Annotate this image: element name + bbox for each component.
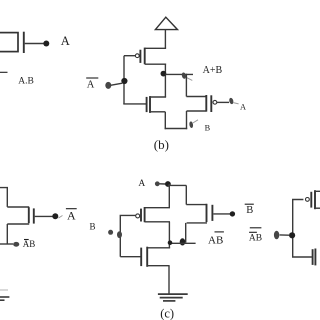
nmos M7 drain lead xyxy=(186,204,207,206)
nmos M8 channel bar xyxy=(146,247,148,267)
svg-text:A.B: A.B xyxy=(18,76,34,86)
leader tail A+B xyxy=(186,77,193,80)
wire nmos M3 gate lead xyxy=(123,103,146,105)
nmos M8 source lead xyxy=(147,265,169,267)
pmos M9 drain lead (cut) xyxy=(315,207,320,209)
terminal blob B xyxy=(189,121,194,128)
wire A stub xyxy=(160,183,166,185)
wire M5 gate to node Abar xyxy=(35,215,53,217)
pmos M9 gate bubble xyxy=(306,198,310,202)
wire B rail xyxy=(120,215,135,256)
input dot B grey xyxy=(108,230,113,235)
ground (subfig c) xyxy=(158,294,188,301)
wire M8 gate to B rail xyxy=(120,256,140,258)
svg-text:(b): (b) xyxy=(154,137,169,152)
svg-text:A: A xyxy=(138,179,145,189)
pmos M9 source lead (cut) xyxy=(315,190,320,192)
pmos M4 drain lead xyxy=(187,110,207,112)
svg-text:B: B xyxy=(205,123,211,132)
svg-text:B: B xyxy=(246,205,253,216)
junction dot node AbarB-bar xyxy=(289,232,295,238)
pmos M2 gate bar xyxy=(139,50,141,63)
wire bottom node ABbar xyxy=(169,242,195,244)
pmos M6 source lead xyxy=(145,207,170,209)
nmos M8 gate bar xyxy=(140,248,142,267)
pmos M2 source lead xyxy=(145,47,166,49)
wire top rail (subfig c left, cut at edge) xyxy=(0,188,7,207)
wire M4 drain down xyxy=(186,111,188,129)
nmos M3 drain lead xyxy=(150,96,166,98)
wire M7 source down xyxy=(185,223,187,243)
wire AbarB-bar stub xyxy=(280,234,289,236)
nmos M5 channel bar xyxy=(28,207,30,223)
pmos M6 channel bar xyxy=(144,207,146,222)
input blob Abar xyxy=(105,82,111,89)
nmos M3 source lead xyxy=(150,111,165,113)
wire to ground xyxy=(168,266,170,294)
pmos M9 channel bar xyxy=(314,190,316,209)
nmos M3 gate bar xyxy=(146,97,148,112)
wire Abar rail vertical xyxy=(123,56,125,104)
junction dot output node A+B xyxy=(161,71,167,77)
pmos M4 channel bar xyxy=(205,95,207,112)
input blob B xyxy=(117,231,122,238)
wire bottom node B xyxy=(165,128,188,130)
junction dot node ABbar left xyxy=(168,240,173,245)
svg-text:A: A xyxy=(61,34,70,48)
junction dot node Abar xyxy=(121,78,127,84)
wire node A down to pmos M6 xyxy=(168,184,170,208)
junction dot node A (subfig c) xyxy=(165,181,171,187)
wire output node to label A+B xyxy=(165,73,193,75)
wire M1 gate to node A xyxy=(25,43,44,45)
nmos M5 source lead xyxy=(7,223,29,225)
VDD symbol (subfig b) xyxy=(155,17,177,29)
transistor M1 (subfig a, cut at left edge) channel box xyxy=(0,33,18,52)
input blob AbarB-bar xyxy=(274,231,279,240)
svg-text:(c): (c) xyxy=(160,307,174,320)
pmos M2 channel bar xyxy=(144,48,146,65)
wire node AbarB (cut at edge) xyxy=(0,243,13,245)
leader tail B xyxy=(193,120,198,123)
ground (left, cut at edge) xyxy=(0,290,9,300)
terminal blob A xyxy=(229,97,234,104)
leader tail Abar xyxy=(59,216,63,219)
junction dot node ABbar right xyxy=(180,238,186,245)
pmos M6 drain lead xyxy=(145,221,170,223)
pmos M4 gate bar xyxy=(210,95,212,112)
svg-text:A: A xyxy=(87,80,95,91)
svg-text:B: B xyxy=(90,222,96,232)
wire M2 gate to Abar rail xyxy=(124,55,135,57)
wire down to nmos M7 xyxy=(185,185,187,204)
nmos M5 gate bar xyxy=(33,208,35,223)
svg-text:AB: AB xyxy=(208,234,223,246)
pmos M2 drain lead xyxy=(145,63,166,65)
pmos M4 gate bubble xyxy=(213,100,217,104)
leader blob A+B xyxy=(181,72,186,79)
svg-text:A: A xyxy=(67,208,76,222)
wire M7 gate to node Bbar xyxy=(213,213,230,215)
wire rail (subfig c right) xyxy=(293,200,312,258)
nmos M7 channel bar xyxy=(206,204,208,222)
wire M3 source down xyxy=(164,112,166,129)
wire M4 gate to terminal A xyxy=(217,101,229,103)
transistor M1 gate bar xyxy=(23,32,25,53)
wire output to pmos M4 source xyxy=(185,74,187,97)
pmos M6 gate bar xyxy=(140,209,142,222)
nmos M10 gate bar (cut at edge) xyxy=(312,249,314,265)
pmos M9 gate bar xyxy=(310,192,312,208)
nmos M3 channel bar xyxy=(149,96,151,113)
label overline fragment (cut at edge) xyxy=(0,71,8,73)
pmos M4 source lead xyxy=(186,96,206,98)
svg-text:AB: AB xyxy=(23,239,36,249)
nmos M7 source lead xyxy=(187,222,207,224)
wire M5 source down (cut) xyxy=(6,224,8,244)
node A terminal dot xyxy=(43,41,49,47)
nmos M8 drain lead xyxy=(147,247,170,249)
terminal blob AbarB xyxy=(13,242,19,247)
leader tail A xyxy=(233,103,238,104)
svg-text:AB: AB xyxy=(249,233,262,243)
input blob A (subfig c) xyxy=(155,181,160,186)
wire output vertical xyxy=(164,64,166,98)
svg-text:A+B: A+B xyxy=(203,65,223,76)
wire node A right xyxy=(168,184,186,186)
svg-text:A: A xyxy=(240,102,246,111)
wire M6 drain down to nmos M8 xyxy=(168,222,170,248)
nmos M7 gate bar xyxy=(211,205,213,221)
terminal dot Bbar xyxy=(230,211,235,216)
terminal dot Abar (subfig c) xyxy=(52,213,58,219)
nmos M5 drain lead xyxy=(7,206,29,208)
nmos M10 channel bar (cut at edge) xyxy=(314,249,316,266)
pmos M6 gate bubble xyxy=(136,214,140,218)
pmos M2 gate bubble xyxy=(135,54,139,58)
wire VDD stem xyxy=(164,30,166,49)
wire Abar stub xyxy=(111,83,123,85)
